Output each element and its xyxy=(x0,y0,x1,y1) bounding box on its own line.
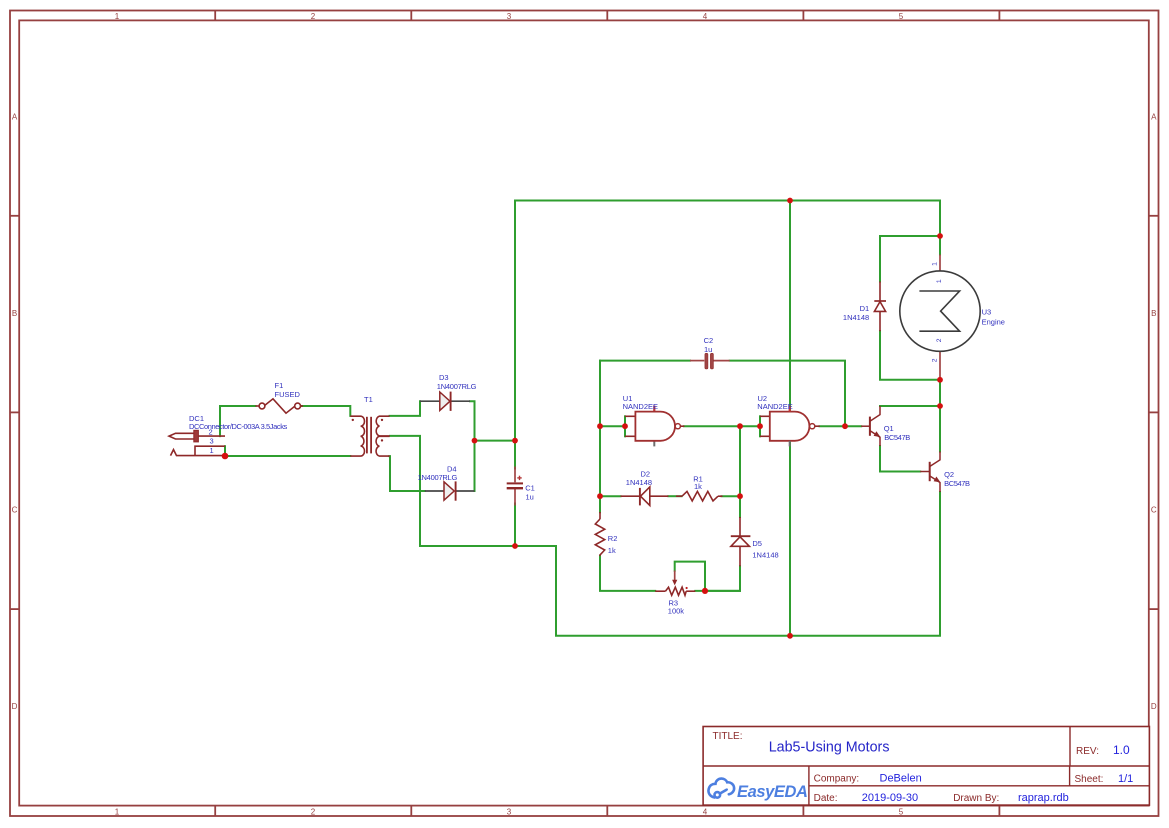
wire U2 output node to Q1 base xyxy=(845,425,861,427)
svg-text:1k: 1k xyxy=(694,482,702,491)
svg-text:3: 3 xyxy=(507,807,512,816)
svg-text:TITLE:: TITLE: xyxy=(713,731,743,742)
svg-text:Engine: Engine xyxy=(982,318,1005,327)
DC connector DC1 xyxy=(169,430,225,455)
NAND gate U2 NAND2EE xyxy=(760,406,820,447)
svg-text:1: 1 xyxy=(115,807,120,816)
svg-text:C: C xyxy=(1151,506,1157,515)
svg-text:B: B xyxy=(1151,309,1156,318)
title block xyxy=(703,727,1149,806)
resistor R1 1k xyxy=(676,491,723,501)
svg-text:3: 3 xyxy=(210,437,214,446)
junction node C1 bottom xyxy=(512,543,518,549)
wire Q1 emitter to Q2 base xyxy=(880,446,920,472)
wire top power rail left vertical xyxy=(515,201,940,441)
svg-text:2019-09-30: 2019-09-30 xyxy=(862,792,918,804)
junction node C1 top xyxy=(512,438,518,444)
svg-text:D: D xyxy=(1151,702,1157,711)
svg-text:1N4148: 1N4148 xyxy=(626,478,652,487)
wire U2 input bracket xyxy=(759,416,761,436)
EasyEDA logo xyxy=(708,779,734,798)
diode D4 1N4007RLG xyxy=(425,481,475,500)
svg-text:Company:: Company: xyxy=(814,774,860,785)
svg-text:5: 5 xyxy=(899,807,904,816)
wire C2 left rail xyxy=(600,360,690,362)
svg-text:DeBelen: DeBelen xyxy=(880,773,922,785)
junction node motor bottom xyxy=(937,377,943,383)
wire U1 input bridge xyxy=(600,425,625,427)
junction node Q1 collector xyxy=(937,403,943,409)
wire transformer sec bottom to D4 anode xyxy=(389,456,425,491)
svg-text:raprap.rdb: raprap.rdb xyxy=(1018,792,1069,804)
wire C2 right rail down to U2 output node xyxy=(730,361,845,427)
junction node U1-U2 wire x740 xyxy=(737,423,743,429)
motor U3 Engine xyxy=(900,255,980,380)
svg-text:1: 1 xyxy=(936,279,943,283)
wire U1/U2 node down to D2/R1 row xyxy=(739,426,741,517)
svg-text:100k: 100k xyxy=(668,607,685,616)
svg-text:2: 2 xyxy=(932,358,939,362)
wire x600 vertical to R2 xyxy=(599,361,601,513)
wire transformer sec top to D3 anode xyxy=(390,401,420,416)
wire D2 to R1 xyxy=(668,495,681,497)
wire R2 bottom to R3 left xyxy=(600,556,655,591)
svg-text:C: C xyxy=(12,506,18,515)
svg-text:4: 4 xyxy=(703,807,708,816)
svg-text:2: 2 xyxy=(311,807,316,816)
svg-text:F1: F1 xyxy=(275,381,284,390)
junction node x600 D2 row xyxy=(597,493,603,499)
svg-text:DCConnector/DC-003A 3.5Jacks: DCConnector/DC-003A 3.5Jacks xyxy=(189,422,288,431)
svg-text:U3: U3 xyxy=(982,307,992,316)
svg-text:Drawn By:: Drawn By: xyxy=(953,793,999,804)
junction node U2 output xyxy=(842,423,848,429)
fuse F1 xyxy=(256,399,304,413)
svg-text:NAND2EE: NAND2EE xyxy=(757,402,792,411)
wire long vertical net x790 xyxy=(789,201,791,636)
svg-text:1k: 1k xyxy=(608,546,616,555)
diode D3 1N4007RLG xyxy=(420,392,470,411)
svg-text:1: 1 xyxy=(210,446,214,455)
wire Q1 collector to rail xyxy=(880,405,940,407)
svg-text:BC547B: BC547B xyxy=(944,479,970,488)
svg-text:BC547B: BC547B xyxy=(884,433,910,442)
wire D1 bottom to motor pin2 node xyxy=(880,331,940,380)
junction node DC1 pins 1-3 xyxy=(222,453,229,460)
svg-text:NAND2EE: NAND2EE xyxy=(623,402,658,411)
svg-text:Sheet:: Sheet: xyxy=(1075,774,1104,785)
junction node U2 input xyxy=(757,423,763,429)
wire node to C1 top rail xyxy=(475,440,516,442)
svg-text:B: B xyxy=(12,309,17,318)
transistor Q2 BC547B xyxy=(920,452,940,493)
svg-text:REV:: REV: xyxy=(1076,746,1099,757)
wire U1 input bracket xyxy=(624,416,626,436)
svg-text:1u: 1u xyxy=(526,492,534,501)
wire D2 anode left xyxy=(600,495,621,497)
svg-text:FUSED: FUSED xyxy=(275,390,301,399)
junction node D3/D4 cathodes xyxy=(472,438,478,444)
svg-text:A: A xyxy=(1151,112,1157,121)
wire R3 right lead to node xyxy=(695,590,740,592)
wire rail to D1 top xyxy=(880,236,940,282)
junction node x600 gate row xyxy=(597,423,603,429)
wire U1 output to U2 input xyxy=(684,425,760,427)
svg-text:C1: C1 xyxy=(525,484,535,493)
potentiometer R3 100k xyxy=(655,571,695,596)
transistor Q1 BC547B xyxy=(861,406,880,446)
svg-text:1.0: 1.0 xyxy=(1113,743,1130,757)
svg-text:1N4148: 1N4148 xyxy=(752,550,778,559)
wire C1 bottom to gnd rail xyxy=(514,504,516,547)
wire R1 to node xyxy=(722,495,741,497)
transformer T1 xyxy=(350,416,389,456)
svg-text:1/1: 1/1 xyxy=(1118,773,1133,785)
svg-text:A: A xyxy=(12,112,18,121)
diode D5 1N4148 xyxy=(731,517,751,566)
svg-text:1N4148: 1N4148 xyxy=(843,313,869,322)
svg-text:Q1: Q1 xyxy=(884,424,894,433)
resistor R2 1k xyxy=(595,512,604,556)
junction node U1 input xyxy=(622,423,628,429)
diode D2 1N4148 xyxy=(621,487,669,506)
svg-text:D: D xyxy=(12,702,18,711)
wire U2 output xyxy=(820,425,846,427)
svg-text:D5: D5 xyxy=(752,539,762,548)
wire motor pin2 to Q2 collector xyxy=(939,380,941,452)
wire transformer sec mid down to gnd rail xyxy=(390,436,940,636)
svg-text:Lab5-Using Motors: Lab5-Using Motors xyxy=(769,740,890,756)
svg-text:5: 5 xyxy=(899,12,904,21)
svg-text:2: 2 xyxy=(311,12,316,21)
wire fuse to transformer primary top xyxy=(302,406,351,416)
wire DC1 pin2 to fuse xyxy=(220,406,256,436)
junction node top rail x790 xyxy=(787,198,793,204)
junction node R3 right xyxy=(702,588,708,594)
junction node R1 right xyxy=(737,493,743,499)
svg-text:1N4007RLG: 1N4007RLG xyxy=(418,473,458,482)
capacitor C1 polarized xyxy=(507,467,523,506)
junction node motor top xyxy=(937,233,943,239)
svg-text:R2: R2 xyxy=(608,534,618,543)
wire D3 cathode down to D4 cathode xyxy=(470,401,475,491)
junction node bottom rail x790 xyxy=(787,633,793,639)
svg-text:1: 1 xyxy=(115,12,120,21)
wire DC1 pin3 to pin1 xyxy=(224,446,226,456)
svg-text:4: 4 xyxy=(703,12,708,21)
svg-text:3: 3 xyxy=(507,12,512,21)
svg-text:Date:: Date: xyxy=(814,793,838,804)
wire C1 top stub xyxy=(514,441,516,469)
wire motor pin1 stub xyxy=(939,236,941,255)
svg-text:C2: C2 xyxy=(704,336,714,345)
svg-text:T1: T1 xyxy=(364,395,373,404)
svg-text:2: 2 xyxy=(936,338,943,342)
wire DC1 pin1 to transformer primary bottom xyxy=(225,455,350,457)
capacitor C2 xyxy=(690,353,730,369)
svg-text:EasyEDA: EasyEDA xyxy=(737,783,808,801)
svg-text:1N4007RLG: 1N4007RLG xyxy=(437,382,477,391)
svg-text:1u: 1u xyxy=(704,345,712,354)
svg-text:1: 1 xyxy=(932,262,939,266)
diode D1 1N4148 xyxy=(874,282,886,332)
wire R3 wiper loop xyxy=(675,562,705,591)
op-amp? no: NAND gate U1 NAND2EE xyxy=(625,406,684,447)
wire D5 bottom to R3 right node xyxy=(705,566,740,591)
svg-text:D1: D1 xyxy=(860,304,870,313)
svg-text:Q2: Q2 xyxy=(944,470,954,479)
